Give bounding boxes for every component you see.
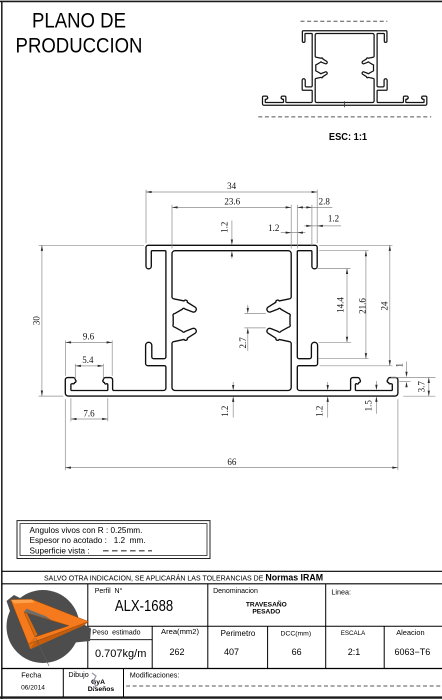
svg-text:Perimetro: Perimetro <box>221 629 256 638</box>
svg-text:7.6: 7.6 <box>83 408 95 418</box>
svg-text:1.2: 1.2 <box>328 214 339 224</box>
svg-text:1.2: 1.2 <box>268 223 279 233</box>
svg-text:Area(mm2): Area(mm2) <box>161 627 199 636</box>
svg-text:Angulos vivos con R : 0.25mm.: Angulos vivos con R : 0.25mm. <box>30 526 143 535</box>
orange triangular ring <box>11 599 89 644</box>
svg-text:34: 34 <box>227 181 237 191</box>
dim 1 <box>406 362 408 375</box>
svg-text:1.2: 1.2 <box>220 406 230 417</box>
svg-text:Denominacion: Denominacion <box>213 588 258 595</box>
dim 1.2 hook <box>304 225 341 227</box>
svg-text:1.2: 1.2 <box>220 222 230 233</box>
svg-text:1.2: 1.2 <box>314 406 324 417</box>
dim 3.7 extension lines <box>391 376 436 378</box>
dim 23.6 <box>172 206 291 208</box>
svg-text:1: 1 <box>395 363 405 368</box>
dim 24 extension lines <box>319 244 392 246</box>
dim 30 <box>41 245 43 396</box>
logo GyA <box>7 590 92 666</box>
dim 1 extension lines <box>399 381 410 383</box>
svg-text:Perfil N°: Perfil N° <box>95 587 123 595</box>
dim 66 extension lines <box>64 399 66 470</box>
small scale profile (ESC 1:1) <box>262 31 426 105</box>
dim 1.2 top plate <box>231 221 233 243</box>
svg-text:Modificaciones:: Modificaciones: <box>130 671 180 680</box>
dim 9.6 extension lines <box>65 340 67 375</box>
dim 7.6 extension lines <box>70 398 72 421</box>
svg-text:2:1: 2:1 <box>348 647 361 657</box>
dim 1.2 wall <box>281 232 306 234</box>
dim 2.7 <box>247 305 249 311</box>
svg-text:DCC(mm): DCC(mm) <box>281 630 312 637</box>
svg-text:Linea:: Linea: <box>331 587 351 596</box>
bevels <box>28 622 88 650</box>
svg-text:Superficie vista :: Superficie vista : <box>30 546 90 555</box>
dim 23.6 extension lines <box>171 205 173 249</box>
dim 24 <box>389 245 391 365</box>
dim 7.6 <box>71 418 108 420</box>
svg-text:407: 407 <box>224 647 239 657</box>
dim 34 extension lines <box>145 190 147 244</box>
svg-text:1.5: 1.5 <box>364 400 374 412</box>
svg-text:ESC: 1:1: ESC: 1:1 <box>329 132 368 143</box>
dim 14.4 extension lines <box>318 267 351 269</box>
notes box <box>17 521 210 559</box>
svg-text:2.7: 2.7 <box>238 337 248 349</box>
svg-text:66: 66 <box>227 457 237 467</box>
svg-text:262: 262 <box>169 647 184 657</box>
dim 66 <box>65 467 398 469</box>
page border <box>1 1 3 699</box>
svg-text:TRAVESAÑO: TRAVESAÑO <box>246 599 287 608</box>
main profile outline <box>65 245 398 396</box>
svg-text:Aleacion: Aleacion <box>396 628 424 637</box>
dim 9.6 <box>66 341 113 343</box>
tolerance bar <box>2 570 442 572</box>
main profile cavity <box>172 251 291 391</box>
dim 1.5 <box>375 381 377 388</box>
dim 2.8 <box>297 206 332 208</box>
svg-text:PESADO: PESADO <box>252 609 280 616</box>
svg-text:66: 66 <box>292 647 302 657</box>
dim 1.2 base right <box>327 382 329 388</box>
svg-text:PLANO DE: PLANO DE <box>32 10 126 33</box>
svg-text:ESCALA: ESCALA <box>341 630 366 637</box>
svg-text:5.4: 5.4 <box>82 355 94 365</box>
svg-text:Peso estimado: Peso estimado <box>92 630 140 637</box>
svg-text:2.8: 2.8 <box>319 197 331 207</box>
center tick small profile <box>344 101 346 107</box>
dim 1.2 base left <box>232 382 234 388</box>
dim 30 extension lines <box>39 244 144 246</box>
svg-text:06/2014: 06/2014 <box>21 685 45 692</box>
svg-text:ALX-1688: ALX-1688 <box>115 598 173 615</box>
svg-text:23.6: 23.6 <box>224 196 240 206</box>
title block grid <box>87 584 89 669</box>
dim 2.8 extension lines <box>296 205 298 249</box>
svg-text:30: 30 <box>32 316 42 326</box>
inner bevel orange <box>24 612 38 637</box>
dim 21.6 <box>365 251 367 359</box>
inner 3d wall (gray) <box>24 609 52 621</box>
svg-text:Fecha: Fecha <box>21 671 41 680</box>
svg-text:9.6: 9.6 <box>83 332 95 342</box>
small pencil mark <box>92 673 96 690</box>
svg-text:6063−T6: 6063−T6 <box>395 647 431 657</box>
svg-text:3.7: 3.7 <box>417 381 427 393</box>
svg-text:Dibujo: Dibujo <box>68 670 88 679</box>
svg-text:0.707kg/m: 0.707kg/m <box>95 648 146 660</box>
dashed reference line top <box>301 20 388 22</box>
dim 2.7 extension lines <box>244 313 265 315</box>
svg-text:24: 24 <box>379 301 389 311</box>
svg-text:21.6: 21.6 <box>357 298 367 314</box>
dim 3.7 <box>428 377 430 396</box>
dim 21.6 extension lines <box>319 250 368 252</box>
svg-text:Espesor no acotado : 1.2 mm: Espesor no acotado : 1.2 mm. <box>30 536 146 545</box>
svg-text:14.4: 14.4 <box>336 297 346 313</box>
dim 34 <box>146 191 317 193</box>
dashed reference line bottom <box>258 116 431 118</box>
svg-text:PRODUCCION: PRODUCCION <box>16 35 143 58</box>
dim 5.4 extension lines <box>74 364 76 379</box>
dim 14.4 <box>346 268 348 342</box>
dim 5.4 <box>75 365 103 367</box>
